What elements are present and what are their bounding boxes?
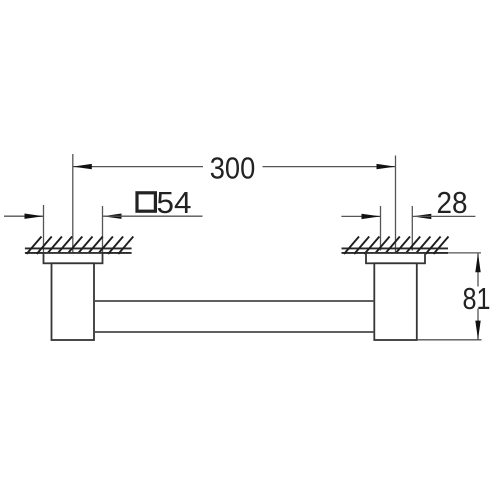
- wall left hatching: [27, 237, 134, 255]
- right escutcheon flange: [366, 253, 425, 263]
- wire 28 dimension tail right: [412, 215, 475, 217]
- svg-text:54: 54: [157, 185, 192, 220]
- arrow top of 81: [475, 253, 480, 272]
- arrow left of 54: [25, 214, 44, 219]
- arrow left of 300: [73, 164, 92, 169]
- wire extension line left of 300 dim: [72, 154, 74, 253]
- wire 54 dimension tail left: [4, 215, 44, 217]
- wire 81 top reference line: [448, 252, 481, 254]
- left escutcheon flange: [44, 253, 103, 263]
- wall right outer line: [342, 247, 449, 249]
- bar top line: [94, 300, 374, 302]
- arrow bottom of 81: [475, 321, 480, 340]
- left post body: [52, 263, 95, 340]
- wire extension line right of 54 dim: [102, 206, 104, 254]
- wire extension line right of 300 dim: [395, 156, 397, 255]
- wall right hatching: [344, 237, 449, 255]
- wall right surface line: [342, 252, 449, 254]
- wire 81 bottom reference line: [417, 339, 482, 341]
- arrow left of 28: [362, 214, 381, 219]
- wire extension line left of 28 dim: [380, 206, 382, 251]
- svg-text:81: 81: [463, 281, 491, 316]
- bar bottom line: [94, 331, 374, 333]
- wire extension line left of 54 dim: [43, 205, 45, 254]
- wire extension line right of 28 dim: [411, 206, 413, 251]
- wire 28 dimension tail left: [341, 215, 380, 217]
- wire 54 dimension tail right: [103, 215, 203, 217]
- arrow right of 300: [377, 164, 396, 169]
- right post body: [374, 263, 417, 340]
- wall left surface line: [25, 252, 132, 254]
- wall left outer line: [25, 247, 132, 249]
- svg-text:28: 28: [437, 185, 468, 220]
- arrow right of 28: [412, 214, 431, 219]
- wire 300 dimension line: [73, 166, 203, 168]
- svg-text:300: 300: [210, 150, 256, 185]
- arrow right of 54: [103, 214, 122, 219]
- wire 81 dimension line: [477, 253, 479, 286]
- square symbol of label 54: [137, 193, 155, 211]
